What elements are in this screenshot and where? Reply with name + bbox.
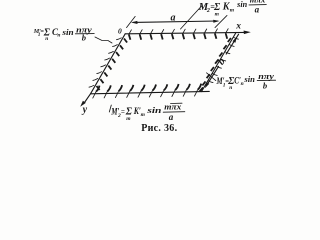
svg-text:m: m [141,112,146,118]
plate right edge [202,33,237,92]
stepped leader from left label [95,37,112,43]
dimension a line [133,21,218,22]
svg-text:sin: sin [243,75,255,84]
dimension b line lower segment [206,66,218,86]
svg-text:m: m [215,11,220,17]
svg-text:sin: sin [146,106,162,115]
svg-text:=: = [121,108,125,116]
svg-text:sin: sin [61,27,74,37]
dimension a right arrowhead [213,20,219,23]
x-axis arrowhead [244,31,251,35]
svg-text:n: n [45,36,48,42]
svg-text:a: a [171,12,176,23]
svg-text:nπy: nπy [258,71,274,81]
right edge moment arrows [200,37,239,91]
dimension a right slash tick [215,15,227,27]
dimension a left arrowhead [131,21,138,24]
y-axis arrowhead [80,101,86,107]
svg-text:n: n [241,81,244,87]
label L3: M'1 = sum_n C'_n sin n.pi.y/b [216,71,276,91]
svg-text:m: m [230,8,235,14]
svg-text:a: a [169,112,174,122]
label L2: M2 = sum_m K_m sin m.pi.x/a [198,0,266,17]
svg-text:n: n [57,32,60,38]
svg-text:b: b [263,81,267,91]
svg-text:n: n [229,85,232,91]
svg-text:Рис. 36.: Рис. 36. [141,123,177,134]
svg-text:b: b [82,33,86,43]
leader tick of bottom label M'2 [109,105,111,112]
bottom edge moment arrows [93,84,201,99]
dimension a left slash tick [127,16,136,27]
label L1: M'1 = sum_n C_n sin n.pi.y/b [33,26,94,43]
left edge moment arrows [89,38,127,90]
svg-text:y: y [82,105,88,116]
svg-text:x: x [235,22,241,32]
y-axis extension of left edge [84,94,91,104]
dimension b top arrowhead [233,37,237,43]
svg-text:2: 2 [206,8,210,14]
leader from right label M'1 [207,73,216,81]
plate bottom edge [91,91,210,93]
leader from M2 label to top edge [181,6,203,30]
svg-text:sin: sin [236,0,248,9]
svg-text:m: m [126,116,131,122]
dimension b line upper segment [226,34,238,54]
dimension b bottom arrowhead [205,82,210,88]
svg-text:0: 0 [118,26,122,35]
plate top edge with x-axis [125,32,245,33]
svg-text:a: a [255,5,260,15]
label L4: M'2 = sum_m K'_m sin m.pi.x/a [110,102,184,122]
plate left edge [91,34,126,94]
top edge moment arrows [129,29,229,40]
